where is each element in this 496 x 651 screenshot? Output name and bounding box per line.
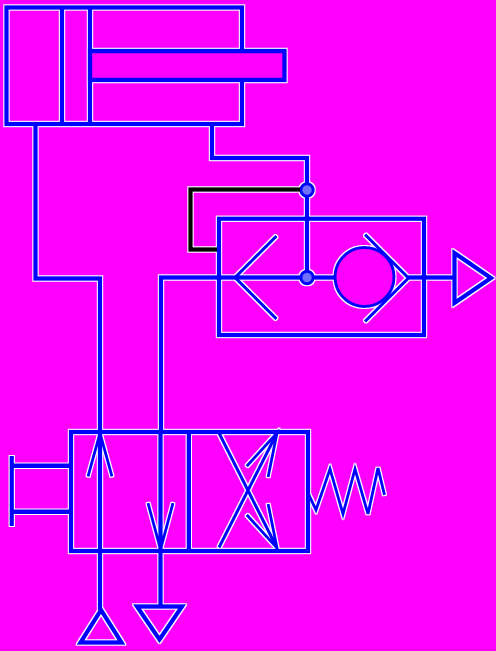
- valve V2 up arrow head: [88, 433, 112, 477]
- wire cylinder right port to node A: [212, 124, 307, 277]
- valve V2 down arrow shaft: [158, 433, 162, 550]
- wire valve V2 to left exhaust: [98, 551, 102, 610]
- valve V1 check ball circle: [335, 248, 394, 307]
- valve V2 divider: [187, 432, 191, 551]
- valve V1 one-way flow control body: [219, 219, 424, 335]
- valve V2 up arrow shaft: [98, 433, 102, 551]
- cylinder C1 piston rod: [90, 51, 285, 80]
- cylinder C1 body: [7, 8, 243, 125]
- wire valve V2 to right exhaust: [158, 551, 162, 606]
- valve V2 body: [71, 432, 308, 551]
- valve V2 cross arrow descending shaft: [219, 433, 277, 548]
- valve V1 flow line right segment: [407, 275, 425, 279]
- valve V2 down arrow head: [148, 503, 173, 550]
- cylinder C1 piston line 2: [88, 8, 92, 125]
- cylinder C1 piston line 1: [60, 8, 64, 125]
- outlet arrow triangle: [455, 253, 492, 303]
- node A: [301, 184, 313, 196]
- valve V2 cross arrow ascending head: [247, 433, 277, 477]
- wire cylinder left port to valve V2 port: [36, 124, 101, 432]
- valve V1 throttle arrow: [235, 236, 277, 319]
- black wire node A to valve V1: [191, 190, 301, 250]
- valve V2 cross arrow ascending shaft: [219, 433, 277, 548]
- pushbutton cap: [10, 456, 14, 526]
- pushbutton bottom rod: [12, 510, 71, 514]
- spring return: [308, 468, 385, 514]
- wire valve V1 left port to valve V2: [161, 278, 219, 433]
- valve V1 flow line left segment: [219, 275, 336, 279]
- valve V2 cross arrow descending head: [247, 504, 277, 548]
- wire valve V1 outlet: [424, 275, 454, 279]
- right exhaust triangle: [137, 607, 182, 640]
- valve V1 check seat: [365, 235, 409, 322]
- left exhaust triangle: [81, 610, 122, 643]
- node B: [301, 271, 313, 283]
- pushbutton top rod: [12, 464, 71, 468]
